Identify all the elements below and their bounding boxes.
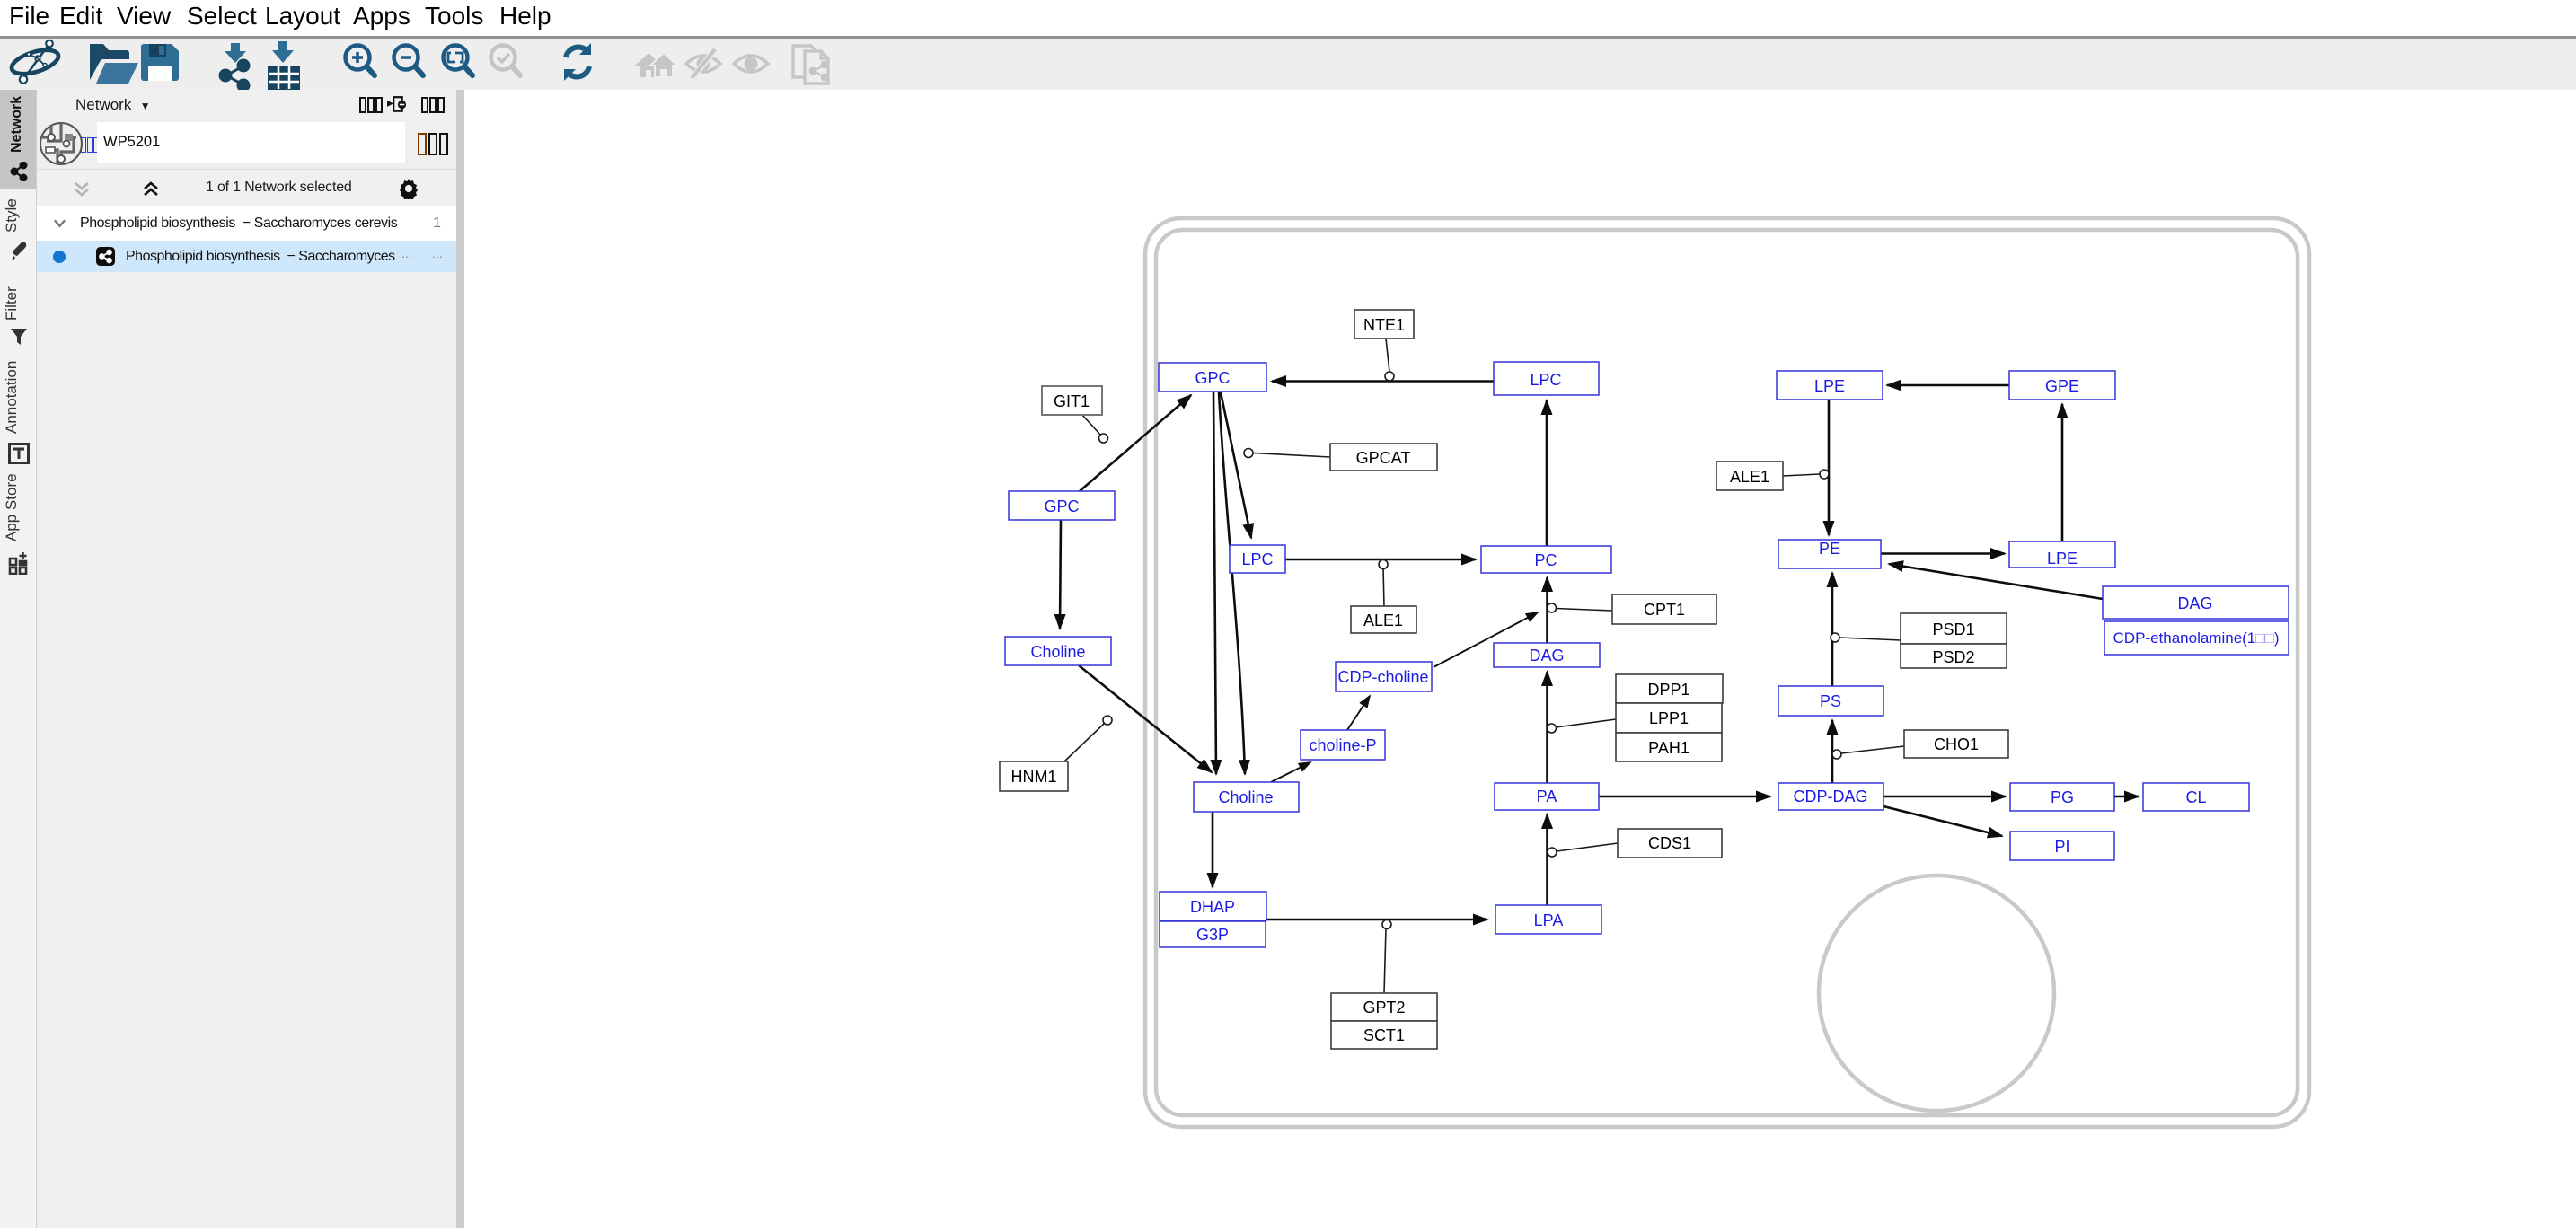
wire anchor to CDS1 <box>1557 843 1618 851</box>
wire anchor to GPCAT <box>1253 453 1330 458</box>
wire CDP-DAG to PG <box>1883 796 2006 798</box>
wire anchor to GPT2 <box>1384 928 1386 993</box>
wire NTE1 to anchor <box>1386 339 1389 372</box>
svg-text:LPA: LPA <box>1534 911 1564 929</box>
metabolite nodes (blue) <box>1005 362 2289 947</box>
node LPE top-left <box>1777 371 1883 400</box>
node LPA <box>1495 905 1601 934</box>
anchor node CDS1 <box>1548 848 1557 857</box>
wire CDP-choline to PC anchor <box>1434 612 1538 667</box>
wire LPE(top) to PE <box>1828 400 1831 535</box>
cell membrane inner <box>1156 230 2298 1115</box>
svg-text:Choline: Choline <box>1030 643 1085 661</box>
cytoscape logo <box>9 40 61 84</box>
svg-text:CHO1: CHO1 <box>1934 735 1979 753</box>
svg-text:PG: PG <box>2051 788 2074 806</box>
open folder icon <box>90 44 138 84</box>
svg-text:HNM1: HNM1 <box>1010 768 1056 786</box>
wire LPE(right) to GPE <box>2061 404 2064 541</box>
wire GPC(cyt) to Choline(cyt) straight <box>1213 392 1216 774</box>
network canvas <box>464 90 2576 1228</box>
svg-text:CDP-DAG: CDP-DAG <box>1793 788 1867 805</box>
show all icon (disabled) <box>734 56 768 72</box>
anchor node PSD <box>1831 633 1839 642</box>
wire anchor to CHO1 <box>1841 746 1904 753</box>
node SCT1 <box>1331 1021 1437 1049</box>
node GPC extracellular <box>1009 491 1115 520</box>
menu bar <box>0 0 2576 36</box>
svg-text:DHAP: DHAP <box>1190 898 1235 916</box>
import network icon <box>220 43 249 91</box>
panel header row <box>37 92 456 119</box>
anchor node HNM1 <box>1103 716 1112 725</box>
anchor node CPT1 <box>1548 603 1557 612</box>
wire HNM1 to anchor <box>1064 724 1104 761</box>
import table icon <box>268 41 300 90</box>
svg-text:LPC: LPC <box>1241 550 1273 568</box>
svg-text:PC: PC <box>1534 551 1557 569</box>
anchor node NTE1 <box>1385 372 1394 381</box>
network from selection icon (disabled) <box>793 46 828 84</box>
node PSD2 <box>1901 644 2007 668</box>
network selected bar <box>37 169 456 206</box>
node Choline cytosol <box>1194 782 1299 812</box>
wire PG to CL <box>2114 796 2139 798</box>
node ALE1 cytosol <box>1351 606 1416 633</box>
node GPT2 <box>1331 993 1437 1021</box>
node G3P <box>1160 921 1266 947</box>
svg-text:G3P: G3P <box>1196 926 1229 944</box>
cell membrane outer <box>1145 218 2309 1127</box>
anchor node GIT1 <box>1099 434 1108 443</box>
node GIT1 <box>1042 386 1102 415</box>
save icon <box>141 44 179 81</box>
node HNM1 <box>1000 761 1068 791</box>
wire ALE1(er) to anchor <box>1783 474 1820 476</box>
first neighbors icon (disabled) <box>635 53 677 77</box>
node ALE1 er <box>1716 462 1783 490</box>
anchor node CHO1 <box>1832 750 1841 759</box>
svg-text:CDS1: CDS1 <box>1648 834 1691 852</box>
wire Choline(cyt) to choline-P <box>1271 762 1310 782</box>
zoom out icon <box>394 46 424 76</box>
splitter <box>456 90 464 1228</box>
svg-text:PI: PI <box>2054 838 2069 856</box>
node PC <box>1481 546 1611 573</box>
node CDS1 <box>1618 829 1722 858</box>
node PG <box>2010 783 2114 811</box>
wire CDP-DAG to PI <box>1883 806 2002 836</box>
node CHO1 <box>1904 730 2008 758</box>
wire LPC(top) to GPC(cyt) <box>1272 380 1494 383</box>
wire DAG to PC <box>1546 577 1548 643</box>
node DHAP <box>1160 892 1266 920</box>
svg-text:LPE: LPE <box>2047 550 2078 568</box>
svg-text:PAH1: PAH1 <box>1648 739 1689 757</box>
node choline-P <box>1301 730 1385 760</box>
wire choline-P to CDP-choline <box>1347 696 1370 730</box>
wire GPC(cyt) to Choline(cyt) curved <box>1219 392 1245 774</box>
svg-text:DAG: DAG <box>2177 594 2212 612</box>
wire anchor to PSD1 <box>1839 638 1901 640</box>
tree row 2 (selected) <box>37 241 456 272</box>
node PSD1 <box>1901 613 2007 644</box>
search row <box>37 118 456 169</box>
node CDP-choline <box>1336 662 1432 691</box>
svg-text:CL: CL <box>2185 788 2206 806</box>
svg-text:GPCAT: GPCAT <box>1356 449 1411 467</box>
wire PA to CDP-DAG <box>1599 796 1770 798</box>
wire G3P to LPA <box>1266 919 1487 921</box>
node PI <box>2010 832 2114 860</box>
hide selected icon (disabled) <box>686 48 720 79</box>
anchor node ALE1(er) <box>1820 470 1829 479</box>
svg-text:PSD2: PSD2 <box>1932 648 1974 666</box>
svg-text:DPP1: DPP1 <box>1647 681 1689 699</box>
node PS <box>1778 686 1883 716</box>
node Choline extracellular <box>1005 637 1111 665</box>
node CL <box>2143 783 2249 811</box>
svg-text:CDP-ethanolamine(1□□): CDP-ethanolamine(1□□) <box>2113 629 2280 647</box>
wire anchor to ALE1(cyt) <box>1383 568 1384 606</box>
wire Choline(ext) to Choline(cyt) <box>1079 665 1212 772</box>
wire anchor to CPT1 <box>1556 609 1612 612</box>
node LPC top <box>1494 362 1599 395</box>
svg-text:PSD1: PSD1 <box>1932 620 1974 638</box>
wire PS to PE <box>1831 573 1834 686</box>
node CDP-DAG <box>1778 783 1883 810</box>
svg-text:PA: PA <box>1537 788 1557 805</box>
anchor node ALE1(cyt) <box>1379 560 1388 569</box>
wire GPC(ext) to Choline(ext) <box>1060 520 1061 629</box>
wire PA to DAG <box>1546 672 1548 783</box>
node DAG right <box>2103 586 2289 619</box>
node GPCAT <box>1330 444 1437 471</box>
svg-text:ALE1: ALE1 <box>1730 468 1769 486</box>
wire LPC(cyt) to PC <box>1285 559 1476 561</box>
wire PC to LPC(top) <box>1546 400 1548 546</box>
svg-text:CPT1: CPT1 <box>1644 601 1685 619</box>
tree row 1 <box>37 206 456 241</box>
node NTE1 <box>1354 310 1414 339</box>
node CDP-ethanolamine <box>2104 621 2289 655</box>
node PAH1 <box>1616 733 1722 761</box>
zoom selected icon (disabled) <box>491 46 521 76</box>
wire anchor to LPP1 <box>1556 719 1616 727</box>
node DPP1 <box>1616 674 1723 703</box>
wire GPE to LPE(top) <box>1887 384 2009 387</box>
wire CDP-DAG to PS <box>1831 720 1834 783</box>
svg-text:PS: PS <box>1820 692 1841 710</box>
node GPE <box>2009 371 2115 400</box>
svg-text:SCT1: SCT1 <box>1363 1026 1405 1044</box>
left vertical tab strip <box>0 90 37 1228</box>
svg-text:LPP1: LPP1 <box>1649 709 1689 727</box>
svg-text:ALE1: ALE1 <box>1363 612 1403 629</box>
anchor node GPCAT <box>1244 449 1253 458</box>
svg-text:CDP-choline: CDP-choline <box>1337 668 1428 686</box>
wire Choline(cyt) to DHAP <box>1212 812 1214 887</box>
toolbar <box>0 39 2576 90</box>
svg-text:LPC: LPC <box>1530 371 1561 389</box>
svg-text:GPC: GPC <box>1195 369 1230 387</box>
nucleus circle <box>1819 876 2054 1111</box>
svg-text:LPE: LPE <box>1814 377 1845 395</box>
svg-text:PE: PE <box>1819 540 1840 558</box>
zoom fit icon <box>444 46 473 76</box>
refresh icon <box>564 43 591 81</box>
wire LPA to PA <box>1546 814 1548 905</box>
wire PE to LPE(right) <box>1881 552 2005 555</box>
enzyme nodes (black) <box>1000 310 2008 1049</box>
svg-text:Choline: Choline <box>1218 788 1273 806</box>
node GPC cytosol <box>1159 363 1266 392</box>
svg-text:NTE1: NTE1 <box>1363 316 1405 334</box>
node PA <box>1495 783 1599 810</box>
anchor node LPP1 <box>1548 724 1557 733</box>
wire GPC(ext) to GPC(cyt) <box>1080 395 1191 491</box>
node PE <box>1778 540 1881 568</box>
node LPE right <box>2009 541 2115 568</box>
svg-text:choline-P: choline-P <box>1309 736 1376 754</box>
svg-text:GPT2: GPT2 <box>1363 999 1405 1016</box>
svg-text:GIT1: GIT1 <box>1054 392 1090 410</box>
anchor node GPT2 <box>1382 920 1391 929</box>
zoom in icon <box>346 46 375 76</box>
wire DAG(right) to PE <box>1889 564 2103 599</box>
svg-text:GPE: GPE <box>2045 377 2079 395</box>
node DAG mid <box>1494 643 1600 667</box>
wire GIT1 to anchor <box>1082 415 1100 435</box>
svg-text:DAG: DAG <box>1529 647 1564 664</box>
side panel <box>37 90 456 1228</box>
svg-text:GPC: GPC <box>1044 497 1079 515</box>
node LPC cytosol <box>1230 545 1285 573</box>
wire GPC(cyt) to LPC(cyt) <box>1221 392 1251 538</box>
node CPT1 <box>1612 594 1716 624</box>
node LPP1 <box>1616 703 1722 733</box>
